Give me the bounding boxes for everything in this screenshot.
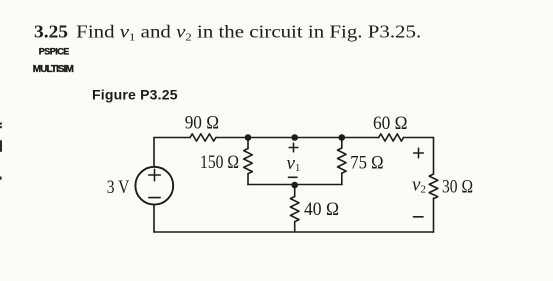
v2 plus sign — [414, 148, 424, 158]
svg-text:75 Ω: 75 Ω — [350, 152, 383, 173]
resistor 30ohm body — [429, 174, 438, 199]
svg-text:v1: v1 — [287, 153, 301, 174]
svg-text:150 Ω: 150 Ω — [200, 152, 239, 173]
node dot: 150ohm top junction — [245, 134, 252, 141]
svg-text:Find v1 and v2 in the circuit: Find v1 and v2 in the circuit in Fig. P3… — [76, 22, 421, 44]
resistor 40ohm body — [290, 197, 299, 222]
wire: left rail below source — [153, 205, 155, 232]
svg-text:40 Ω: 40 Ω — [304, 199, 339, 220]
svg-text:3 V: 3 V — [107, 177, 130, 198]
svg-text:60 Ω: 60 Ω — [373, 113, 408, 134]
v1 minus sign — [289, 176, 298, 178]
resistor 90ohm body — [190, 134, 216, 141]
wire: 40ohm bottom lead — [294, 222, 296, 232]
wire: right rail lower — [433, 198, 435, 232]
node dot: 75ohm top junction — [339, 134, 346, 141]
resistor 60ohm body — [379, 134, 404, 141]
wire: middle rail — [248, 184, 342, 186]
wire: top rail right segment — [404, 137, 434, 139]
v2 minus sign — [414, 216, 424, 218]
wire: 75ohm top lead — [341, 138, 343, 149]
voltage source 3V circle — [135, 167, 173, 205]
voltage source minus sign — [149, 197, 160, 199]
wire: 150ohm bottom lead — [247, 174, 249, 185]
wire: right rail upper — [433, 138, 435, 175]
wire: 75ohm bottom lead — [341, 173, 343, 184]
node dot: v1 minus / 40ohm junction — [291, 182, 298, 189]
node dot: v1 plus junction — [291, 134, 298, 141]
stray mark: clipped glyph at page edge (bottom) — [0, 177, 2, 180]
svg-text:90 Ω: 90 Ω — [185, 113, 219, 134]
wire: left rail above source — [153, 138, 155, 168]
resistor 75ohm body — [338, 148, 347, 173]
svg-text:PSPICE: PSPICE — [39, 47, 70, 57]
svg-text:30 Ω: 30 Ω — [442, 177, 473, 198]
wire: bottom rail — [154, 231, 434, 233]
wire: 150ohm top lead — [247, 138, 249, 149]
svg-text:Figure P3.25: Figure P3.25 — [92, 86, 178, 102]
svg-text:v2: v2 — [412, 175, 426, 196]
svg-text:3.25: 3.25 — [34, 22, 68, 42]
resistor 150ohm body — [244, 149, 253, 174]
stray mark: clipped glyph at page edge (middle) — [0, 140, 2, 152]
svg-text:MULTISIM: MULTISIM — [33, 64, 74, 75]
voltage source plus sign — [149, 169, 161, 180]
wire: 40ohm top lead — [294, 185, 296, 197]
v1 plus sign — [289, 143, 298, 152]
wire: top rail middle segment — [216, 137, 379, 139]
wire: top rail left segment — [154, 137, 190, 139]
stray mark: clipped glyph at page edge (top) — [0, 123, 2, 125]
